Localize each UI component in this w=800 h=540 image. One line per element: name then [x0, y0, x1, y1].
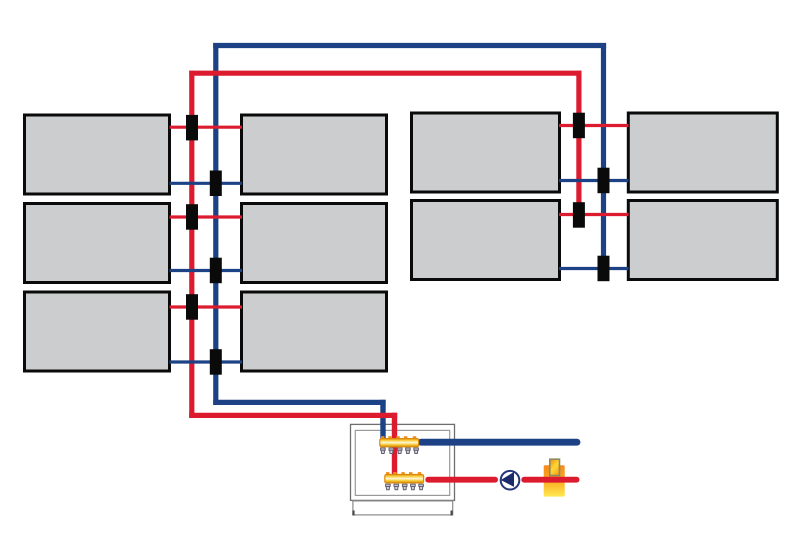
connector valve, right blue row 1	[598, 168, 610, 194]
wire: red supply bottom run to cabinet	[189, 413, 397, 418]
collector panel A1 (left group, col 1, row 1)	[25, 115, 170, 194]
wire: red drop into cabinet (passes behind upper manifold)	[392, 413, 397, 478]
pedestal foot left	[352, 511, 354, 516]
collector panel B1 (left group, col 2, row 1)	[242, 115, 387, 194]
wire: blue return riser, right field	[601, 43, 606, 270]
stub: blue return branch, left row 3	[170, 360, 243, 363]
pipe: blue return from upper manifold to storage	[421, 439, 577, 446]
stub: red supply branch, left row 3	[170, 305, 243, 308]
wire: red supply riser, right field	[576, 71, 581, 216]
stub: blue return branch, right row 2	[559, 267, 629, 270]
collector panel A2 (left group, col 1, row 2)	[25, 204, 170, 283]
connector valve, left blue row 2	[210, 258, 222, 284]
pipe: red supply (segment after pump, over boiler)	[524, 477, 576, 483]
collector panel B2 (left group, col 2, row 2)	[242, 204, 387, 283]
wire: red supply riser, left field	[189, 71, 194, 418]
lower manifold (supply header)	[385, 472, 424, 483]
pump P1 impeller triangle (points left)	[501, 472, 514, 487]
connector valve, right red row 2	[573, 202, 585, 228]
cabinet pedestal	[353, 501, 453, 515]
connector valve, right red row 1	[573, 113, 585, 139]
pedestal foot right	[451, 511, 453, 516]
stub: red supply branch, left row 2	[170, 215, 243, 218]
wire: blue drop inside cabinet to upper manifold	[380, 423, 385, 441]
collector panel C1 (right group, col 1, row 1)	[412, 113, 560, 192]
connector valve, left blue row 3	[210, 349, 222, 375]
wire: red supply top run	[189, 71, 581, 76]
wire: red drop inside cabinet to lower manifold	[392, 423, 397, 478]
connector valve, left blue row 1	[210, 171, 222, 197]
stub: blue return branch, left row 2	[170, 269, 243, 272]
stub: red supply branch, right row 1	[559, 124, 629, 127]
boiler top stub (sensor pocket)	[550, 459, 560, 475]
collector panel D1 (right group, col 2, row 1)	[628, 113, 777, 192]
wire: blue return top run	[213, 43, 606, 48]
stub: red supply branch, left row 1	[170, 126, 243, 129]
wire: blue return riser, left field	[213, 43, 218, 405]
connector valve, left red row 3	[186, 294, 198, 320]
collector panel C2 (right group, col 1, row 2)	[412, 201, 560, 280]
stub: blue return branch, left row 1	[170, 182, 243, 185]
connector valve, left red row 2	[186, 204, 198, 230]
connector valve, right blue row 2	[598, 256, 610, 282]
wire: blue return bottom run to cabinet	[213, 400, 385, 405]
cabinet inner frame	[355, 430, 449, 495]
upper manifold (return header)	[380, 436, 419, 447]
pipe: red supply from lower manifold (segment before pump)	[428, 477, 495, 483]
stub: red supply branch, right row 2	[559, 213, 629, 216]
pump P1 (circle)	[501, 471, 520, 490]
wire: blue drop into cabinet	[380, 400, 385, 441]
connector valve, left red row 1	[186, 115, 198, 140]
collector panel A3 (left group, col 1, row 3)	[25, 292, 170, 371]
collector panel D2 (right group, col 2, row 2)	[628, 201, 777, 280]
lower manifold nubs (5 fittings)	[386, 484, 424, 490]
cabinet outer frame	[351, 424, 455, 500]
boiler / heat-load symbol body	[544, 465, 565, 496]
collector panel B3 (left group, col 2, row 3)	[242, 292, 387, 371]
stub: blue return branch, right row 1	[559, 179, 629, 182]
upper manifold nubs (5 fittings)	[381, 448, 419, 454]
